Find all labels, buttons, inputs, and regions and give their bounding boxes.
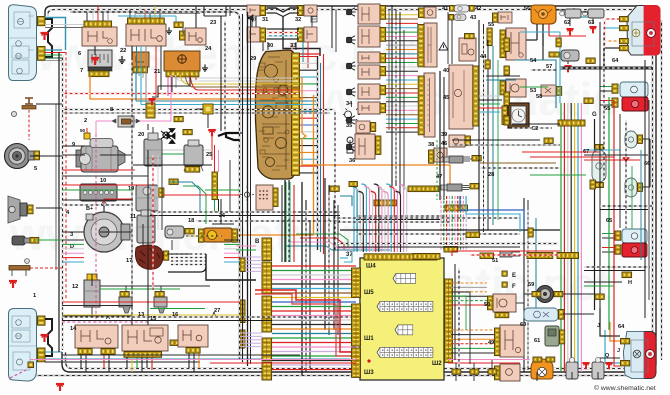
- cylinder block 10: [80, 184, 117, 201]
- svg-text:45: 45: [443, 95, 449, 101]
- block 38: [356, 121, 370, 133]
- svg-text:13: 13: [138, 312, 144, 318]
- injector 13: [119, 297, 132, 307]
- wire 64b feed: [610, 322, 620, 341]
- switch 30: [247, 27, 260, 42]
- connector ECU Sh3: [352, 348, 361, 377]
- svg-text:6: 6: [78, 51, 81, 57]
- wire starter 50: [86, 128, 88, 133]
- svg-text:63: 63: [588, 20, 594, 26]
- wire teal headlamp: [45, 18, 66, 51]
- svg-text:10: 10: [100, 178, 106, 184]
- wire fan to ECU: [272, 265, 356, 267]
- wire red dash mid: [62, 93, 299, 95]
- wire green vert right: [608, 97, 610, 330]
- fan symbol 20: [167, 129, 175, 144]
- svg-text:39: 39: [441, 132, 447, 138]
- wire red main: [255, 290, 356, 352]
- headlamp 1 (bottom left): [9, 309, 37, 382]
- wire headlamp jumper: [45, 19, 52, 57]
- wire pink drop long: [95, 134, 97, 322]
- switch 32: [304, 5, 317, 16]
- svg-text:E: E: [512, 273, 516, 279]
- fuel pump 12: [84, 280, 100, 307]
- wire 66 links: [643, 138, 650, 140]
- diagnostic block 28: [256, 185, 273, 210]
- ground: [589, 27, 596, 33]
- wire right horiz fill: [600, 205, 652, 207]
- ground: [148, 99, 155, 105]
- connector 32: [298, 6, 304, 16]
- wire below ecu right: [454, 264, 456, 360]
- sensor 18: [165, 226, 184, 238]
- connector X1.2: [38, 47, 46, 61]
- connector centre strip B: [262, 262, 272, 294]
- ECU pin grid 2: [377, 302, 433, 312]
- lamp 65 (top): [620, 82, 648, 97]
- connector relay7: [89, 71, 109, 77]
- wire horiz pair low: [62, 316, 356, 318]
- wire G vert: [594, 119, 596, 310]
- svg-text:58: 58: [536, 94, 542, 100]
- wire orange main: [90, 76, 302, 133]
- connector centre strip D: [262, 338, 272, 361]
- wire bottom misc: [62, 354, 300, 356]
- svg-text:51: 51: [492, 258, 498, 264]
- connector inline yellow: [174, 117, 183, 122]
- wire engine links: [100, 154, 132, 156]
- lamp 60: [524, 308, 558, 321]
- svg-text:64: 64: [612, 58, 619, 64]
- svg-text:26: 26: [219, 213, 225, 219]
- switch 33: [304, 27, 317, 42]
- ECU pin grid 1: [393, 274, 416, 284]
- connector sensor3: [30, 238, 39, 244]
- wire bottom extra bus: [30, 375, 650, 377]
- connector E: [502, 271, 507, 276]
- ground: [566, 29, 573, 35]
- svg-text:25: 25: [206, 152, 212, 158]
- relay 53: [506, 79, 526, 97]
- lamp 43: [454, 14, 466, 21]
- washer pump 17a: [137, 215, 155, 243]
- ground: [41, 33, 49, 40]
- connector 19: [159, 188, 164, 197]
- cyl 62b: [566, 362, 578, 379]
- svg-text:34: 34: [346, 101, 353, 107]
- connector small 18b: [169, 179, 178, 184]
- connector above ECU 2: [444, 247, 458, 253]
- spark plug 47: [449, 156, 463, 163]
- svg-text:65: 65: [604, 106, 610, 112]
- relay 49: [500, 325, 524, 357]
- ground: [623, 158, 630, 164]
- connector pair 23: [174, 22, 183, 28]
- sensor 25: [184, 145, 203, 166]
- module 36: [204, 228, 232, 242]
- tail lamp 64b (bottom): [624, 332, 657, 379]
- switch 54: [506, 28, 526, 60]
- ground: [166, 27, 172, 34]
- connector 15b: [170, 340, 179, 345]
- svg-text:3: 3: [70, 232, 73, 238]
- svg-text:44: 44: [480, 54, 487, 60]
- coil 20: [144, 139, 162, 166]
- icon box small: [311, 17, 317, 23]
- wire bl jumper: [45, 319, 52, 356]
- wire white band: [200, 77, 296, 79]
- wire fork link: [240, 132, 242, 134]
- wire pink dashed bl: [10, 368, 28, 378]
- connector X2.1: [38, 316, 46, 325]
- wire drop bundle 22: [131, 46, 133, 330]
- distributor 17: [135, 245, 163, 269]
- wire below ecu: [452, 369, 461, 374]
- block 38b: [434, 148, 447, 162]
- svg-text:30: 30: [267, 43, 273, 49]
- connector X1.1: [38, 17, 46, 26]
- bolt 51: [500, 251, 512, 257]
- lamp 66a: [625, 131, 637, 148]
- wire 65 feeds: [600, 86, 612, 88]
- connector 65b: [615, 231, 621, 240]
- relay 48: [500, 364, 520, 381]
- svg-text:54: 54: [530, 58, 537, 64]
- connector 65: [612, 84, 618, 93]
- wire mid verticals2: [523, 198, 525, 372]
- wire black cross2: [340, 229, 560, 231]
- wire mid cross: [452, 144, 560, 146]
- wire black cross1: [335, 217, 520, 219]
- connector 26: [203, 104, 213, 114]
- connector left small2: [240, 330, 245, 348]
- connector 18: [185, 229, 194, 234]
- connector inline C: [146, 103, 155, 118]
- wire headlamp out: [45, 49, 62, 51]
- svg-text:14: 14: [70, 326, 77, 332]
- svg-text:11: 11: [130, 214, 136, 220]
- svg-text:15: 15: [150, 316, 156, 322]
- svg-text:1: 1: [33, 293, 36, 299]
- wire right side verticals: [599, 22, 601, 330]
- wire right mid extra: [486, 75, 520, 77]
- block 24: [164, 51, 200, 71]
- wire red right entry: [452, 251, 560, 256]
- spark plug 47b: [447, 184, 462, 191]
- block 46: [449, 135, 465, 147]
- connector dist: [164, 251, 169, 260]
- wire pink drop: [134, 75, 171, 121]
- speaker 4: [8, 196, 20, 223]
- connector 52: [502, 106, 507, 124]
- connector 30: [260, 28, 266, 42]
- wire left feed band2: [62, 301, 240, 303]
- wire red vert right: [613, 100, 615, 352]
- wire 2-5 red dash: [28, 110, 30, 140]
- svg-text:9: 9: [72, 142, 75, 148]
- wire bottom red: [210, 362, 356, 364]
- wire gray bus2: [62, 112, 330, 114]
- pump 19: [136, 185, 158, 211]
- connector above ECU 1: [413, 254, 440, 260]
- heater block 45: [449, 65, 473, 129]
- connector 39: [418, 76, 424, 135]
- wire ecu top bundle: [349, 184, 354, 252]
- svg-text:61: 61: [534, 338, 540, 344]
- wire ignition down: [536, 24, 538, 40]
- icon horn small: [248, 15, 253, 22]
- connector 47 strip: [408, 186, 439, 192]
- wire dens right: [619, 114, 621, 228]
- wire top centre extra: [255, 16, 257, 27]
- ground: [208, 130, 216, 137]
- cyl 62: [565, 9, 581, 18]
- connector right bundle low: [527, 253, 553, 259]
- switch 55: [498, 12, 512, 23]
- svg-text:20: 20: [138, 132, 144, 138]
- wire inner frame left section: [70, 12, 240, 360]
- wire left horiz links: [36, 103, 62, 105]
- wire 26 link: [207, 114, 209, 128]
- ground: [41, 335, 49, 342]
- controller ECU: [360, 258, 444, 380]
- relay block 6: [82, 27, 117, 46]
- connector mid strip: [212, 172, 217, 200]
- wire 30 down: [262, 42, 264, 51]
- cyl 63b: [592, 362, 604, 379]
- svg-text:41: 41: [442, 6, 448, 12]
- svg-text:38: 38: [428, 142, 434, 148]
- svg-text:56: 56: [524, 6, 530, 12]
- wire teal Ls: [340, 196, 352, 206]
- connector speaker: [28, 205, 34, 214]
- wire 23 top verticals: [195, 6, 197, 28]
- wire to gnd: [94, 50, 96, 55]
- ground: [564, 66, 571, 72]
- svg-text:36: 36: [349, 158, 355, 164]
- connector switch pins: [380, 6, 386, 20]
- block 36b: [355, 134, 375, 159]
- ground: [582, 363, 589, 369]
- wire cyan arcs: [520, 32, 560, 103]
- svg-text:65: 65: [606, 218, 612, 224]
- wire 62 63 tops: [556, 9, 565, 11]
- wire switch fan: [386, 5, 418, 7]
- wire above ecu pair: [356, 215, 446, 217]
- connector 45: [473, 66, 479, 126]
- connector ECU top: [364, 254, 437, 260]
- connector ECU Sh2: [445, 279, 453, 363]
- wire left centre verticals: [147, 150, 149, 325]
- wire injectors: [125, 286, 127, 291]
- svg-text:Ш4: Ш4: [366, 263, 376, 270]
- ground: [202, 64, 208, 71]
- svg-text:B: B: [255, 239, 260, 245]
- svg-text:23: 23: [210, 20, 216, 26]
- block 21: [132, 52, 149, 67]
- svg-text:43: 43: [470, 15, 476, 21]
- wire dens mid: [447, 12, 449, 64]
- connector 14b: [101, 349, 115, 355]
- connector block21: [133, 67, 147, 73]
- svg-text:40: 40: [443, 68, 449, 74]
- connector ECU Sh1: [352, 304, 361, 346]
- connector mid 51: [480, 253, 494, 259]
- svg-text:35: 35: [346, 123, 352, 129]
- wire drop 21: [134, 73, 136, 74]
- wire cluster fanout: [300, 56, 318, 58]
- wire 23 loop: [175, 16, 177, 22]
- svg-text:2: 2: [84, 118, 87, 124]
- lamp 66b: [625, 178, 637, 197]
- wire 30-33 loop: [267, 28, 300, 30]
- heater block 40: [424, 23, 437, 67]
- wire bottom pink: [30, 359, 356, 361]
- svg-text:5: 5: [34, 166, 37, 172]
- wire left centre horiz: [133, 164, 212, 166]
- svg-text:J: J: [617, 348, 620, 354]
- svg-text:55: 55: [488, 22, 494, 28]
- connector left small: [240, 300, 245, 323]
- icon column: [347, 8, 356, 16]
- wire right inner bus: [661, 20, 663, 360]
- connector 64b: [621, 339, 630, 344]
- wire pink cont: [140, 120, 146, 122]
- horn 5: [5, 144, 30, 169]
- connector 54: [500, 30, 506, 58]
- wire relay6 top: [86, 12, 88, 21]
- connector 64: [620, 17, 629, 22]
- wire right hatched bus: [560, 67, 652, 70]
- lamp 67: [592, 150, 606, 182]
- svg-text:18: 18: [188, 218, 194, 224]
- motor 57: [561, 50, 579, 61]
- starter 9-10: [81, 146, 118, 172]
- wire teal pair: [135, 74, 137, 101]
- resistor 8: [118, 116, 134, 127]
- wire pastel bundle: [440, 196, 442, 250]
- wire strip212 up: [214, 145, 216, 172]
- wire 18 yellow: [186, 235, 222, 237]
- wire heater drop: [439, 71, 441, 200]
- connector H: [622, 272, 632, 278]
- svg-text:28: 28: [488, 172, 494, 178]
- wire relay22 top: [129, 10, 131, 19]
- svg-text:64: 64: [618, 324, 625, 330]
- lamp 42: [454, 5, 469, 12]
- connector block24: [166, 71, 199, 77]
- svg-text:19: 19: [128, 186, 134, 192]
- svg-text:33: 33: [290, 43, 296, 49]
- wire right horiz links: [584, 149, 620, 151]
- wire to 49: [451, 329, 494, 331]
- connector mini 37a: [349, 182, 357, 187]
- instrument cluster 29: [256, 50, 295, 179]
- wire left feed band: [62, 239, 84, 241]
- wire orange jog: [302, 77, 450, 186]
- connector 15a: [124, 352, 162, 358]
- wire teal right top: [574, 8, 600, 17]
- relay 23: [185, 28, 206, 45]
- connector 41: [419, 8, 425, 18]
- fan symbol: [161, 131, 171, 139]
- wire spark leads: [171, 253, 206, 255]
- svg-text:24: 24: [205, 46, 212, 52]
- splice fork: [218, 133, 240, 140]
- connector 14a: [78, 349, 92, 355]
- injector 16: [154, 297, 167, 307]
- wire bottom drops: [536, 372, 538, 381]
- connector right extra: [595, 294, 604, 299]
- wire lavender band: [240, 332, 262, 334]
- clock 52: [508, 103, 529, 128]
- module 61: [545, 326, 559, 346]
- block 41: [424, 7, 436, 18]
- svg-text:Ш3: Ш3: [364, 369, 374, 376]
- wire black vert c: [284, 180, 286, 262]
- ground: [605, 363, 612, 369]
- svg-text:22: 22: [120, 48, 126, 54]
- horn 59: [537, 286, 554, 303]
- wire drop 24: [167, 77, 169, 96]
- node red dot: [367, 359, 370, 362]
- wire relay drops: [80, 355, 82, 369]
- connector 31: [260, 6, 266, 16]
- watermark: [9, 28, 618, 310]
- lamp 65b (bottom): [622, 229, 647, 243]
- connector relay23 pins: [180, 31, 186, 40]
- svg-text:46: 46: [441, 141, 447, 147]
- svg-text:50: 50: [484, 302, 490, 308]
- relay 7: [88, 50, 112, 67]
- svg-text:B+: B+: [86, 206, 93, 212]
- heater block 39: [424, 73, 435, 137]
- connector inline y2: [183, 130, 192, 135]
- switch 31: [247, 5, 260, 16]
- svg-text:31: 31: [262, 17, 268, 23]
- connector 27: [186, 348, 200, 354]
- headlamp 1 (top left): [9, 5, 37, 81]
- wire ecu right fan: [451, 282, 487, 284]
- connector strip mid2: [374, 200, 397, 206]
- connector centre strip E: [262, 362, 272, 380]
- wire 24 gnd: [152, 77, 190, 97]
- switch 58: [541, 85, 556, 96]
- connector centre strip A: [262, 238, 272, 261]
- cyl 63: [588, 9, 604, 18]
- svg-text:Ш1: Ш1: [364, 335, 374, 342]
- wire 59 links: [524, 293, 532, 295]
- connector fill stacks: [504, 38, 509, 52]
- svg-text:60: 60: [520, 322, 526, 328]
- svg-text:62: 62: [564, 20, 570, 26]
- ground: [9, 281, 17, 288]
- svg-text:16: 16: [172, 312, 178, 318]
- svg-text:21: 21: [154, 69, 160, 75]
- svg-text:59: 59: [528, 282, 534, 288]
- svg-text:© www.shematic.net: © www.shematic.net: [594, 384, 656, 392]
- svg-text:47: 47: [436, 174, 442, 180]
- svg-text:7: 7: [80, 68, 83, 74]
- sensor 3: [12, 236, 25, 245]
- wire centre bus2: [285, 182, 287, 262]
- wire black knot 17: [206, 254, 256, 280]
- relay block 15: [122, 325, 168, 351]
- connector 40: [418, 25, 424, 67]
- svg-text:49: 49: [488, 340, 494, 346]
- connector small: [28, 362, 34, 368]
- wire 57: [567, 61, 569, 64]
